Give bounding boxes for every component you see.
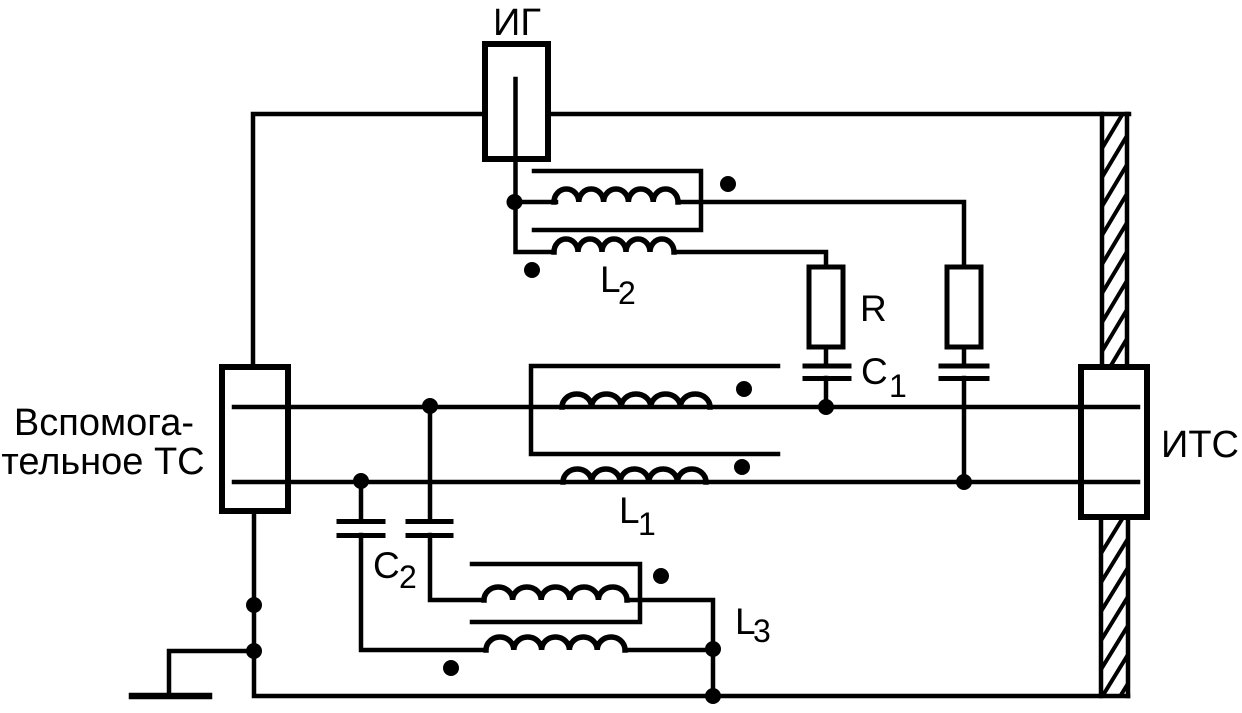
L1 screen bracket [531, 366, 778, 454]
svg-text:2: 2 [618, 275, 636, 311]
wire capacitor to lower bus [962, 378, 967, 482]
label Вспомогательное ТС [1, 402, 204, 483]
inductor L1 lower winding [563, 469, 706, 482]
L1 phase dot upper [736, 381, 752, 397]
node L2 primary tap [507, 194, 523, 210]
node L3 on ground bus [705, 688, 721, 704]
svg-text:тельное ТС: тельное ТС [1, 441, 204, 483]
L3 screen bracket [472, 564, 640, 622]
wire lower bus [234, 480, 1138, 485]
capacitor right branch [941, 366, 987, 379]
resistor right branch [947, 267, 981, 347]
inductor L3 lower winding [486, 637, 625, 650]
wire L2 primary lead [516, 200, 557, 205]
L3 phase dot upper [653, 568, 669, 584]
tested TC box ИТС [1081, 367, 1147, 517]
svg-text:R: R [860, 288, 887, 329]
node lower bus to C2 left [353, 473, 369, 489]
label L1 [619, 490, 656, 542]
node L3 windings join [705, 641, 721, 657]
wire top bus right [548, 112, 1129, 117]
svg-text:2: 2 [399, 559, 417, 595]
wire C2 left to L3 lower winding [361, 535, 486, 650]
resistor R [809, 267, 843, 347]
capacitor C2 right [408, 522, 451, 536]
svg-text:Вспомога-: Вспомога- [14, 402, 194, 444]
L3 phase dot lower [443, 660, 459, 676]
wire C1 to upper bus [824, 378, 829, 407]
wire resistor to capacitor [962, 347, 967, 365]
capacitor C1 [805, 366, 849, 379]
svg-text:ИГ: ИГ [493, 2, 541, 44]
generator ИГ electrode [513, 79, 518, 159]
auxiliary TC box [222, 367, 288, 511]
svg-text:1: 1 [638, 506, 656, 542]
node TC bottom 2 [246, 643, 262, 659]
capacitor C2 left [339, 522, 383, 536]
inductor L3 upper winding [484, 587, 627, 600]
svg-text:L: L [619, 490, 640, 531]
node right branch on lower bus [956, 474, 972, 490]
wire C2 right to L3 upper winding [430, 535, 484, 600]
svg-text:1: 1 [889, 368, 907, 404]
wire L2 primary to right branch [678, 202, 964, 267]
wire L3 lower winding right [625, 648, 713, 653]
ground [132, 693, 209, 700]
wire upper bus [234, 405, 1138, 410]
wire top bus left + left vertical [253, 114, 485, 367]
wire upper bus to C2 right [428, 406, 433, 520]
inductor L2 primary winding [554, 189, 678, 202]
label L2 [600, 259, 636, 311]
wire R to C1 [824, 347, 829, 365]
svg-text:C: C [373, 545, 400, 586]
svg-text:C: C [861, 351, 888, 392]
shield wall upper [1098, 100, 1131, 416]
wire L3 upper winding right [627, 600, 713, 696]
label L3 [735, 601, 771, 649]
L2 phase dot lower [524, 262, 540, 278]
svg-text:3: 3 [753, 613, 771, 649]
L2 phase dot upper [720, 176, 736, 192]
label C2 [373, 545, 417, 595]
node C1 on upper bus [818, 399, 834, 415]
inductor L1 upper winding [562, 394, 710, 407]
node TC bottom 1 [246, 597, 262, 613]
svg-text:ИТС: ИТС [1161, 424, 1239, 466]
wire TC bottom to ground bus [254, 511, 1128, 696]
wire L2 secondary to R [674, 252, 826, 267]
generator ИГ box [485, 44, 548, 159]
wire ИГ to L2 windings [516, 159, 555, 252]
inductor L2 secondary winding [554, 239, 674, 252]
wire to ground [169, 651, 254, 692]
L2 screen bracket [534, 171, 701, 230]
shield wall lower [1097, 503, 1132, 713]
node upper bus to C2 right [422, 398, 438, 414]
label C1 [861, 351, 907, 404]
wire lower bus to C2 left [359, 481, 364, 520]
L1 phase dot lower [734, 459, 750, 475]
